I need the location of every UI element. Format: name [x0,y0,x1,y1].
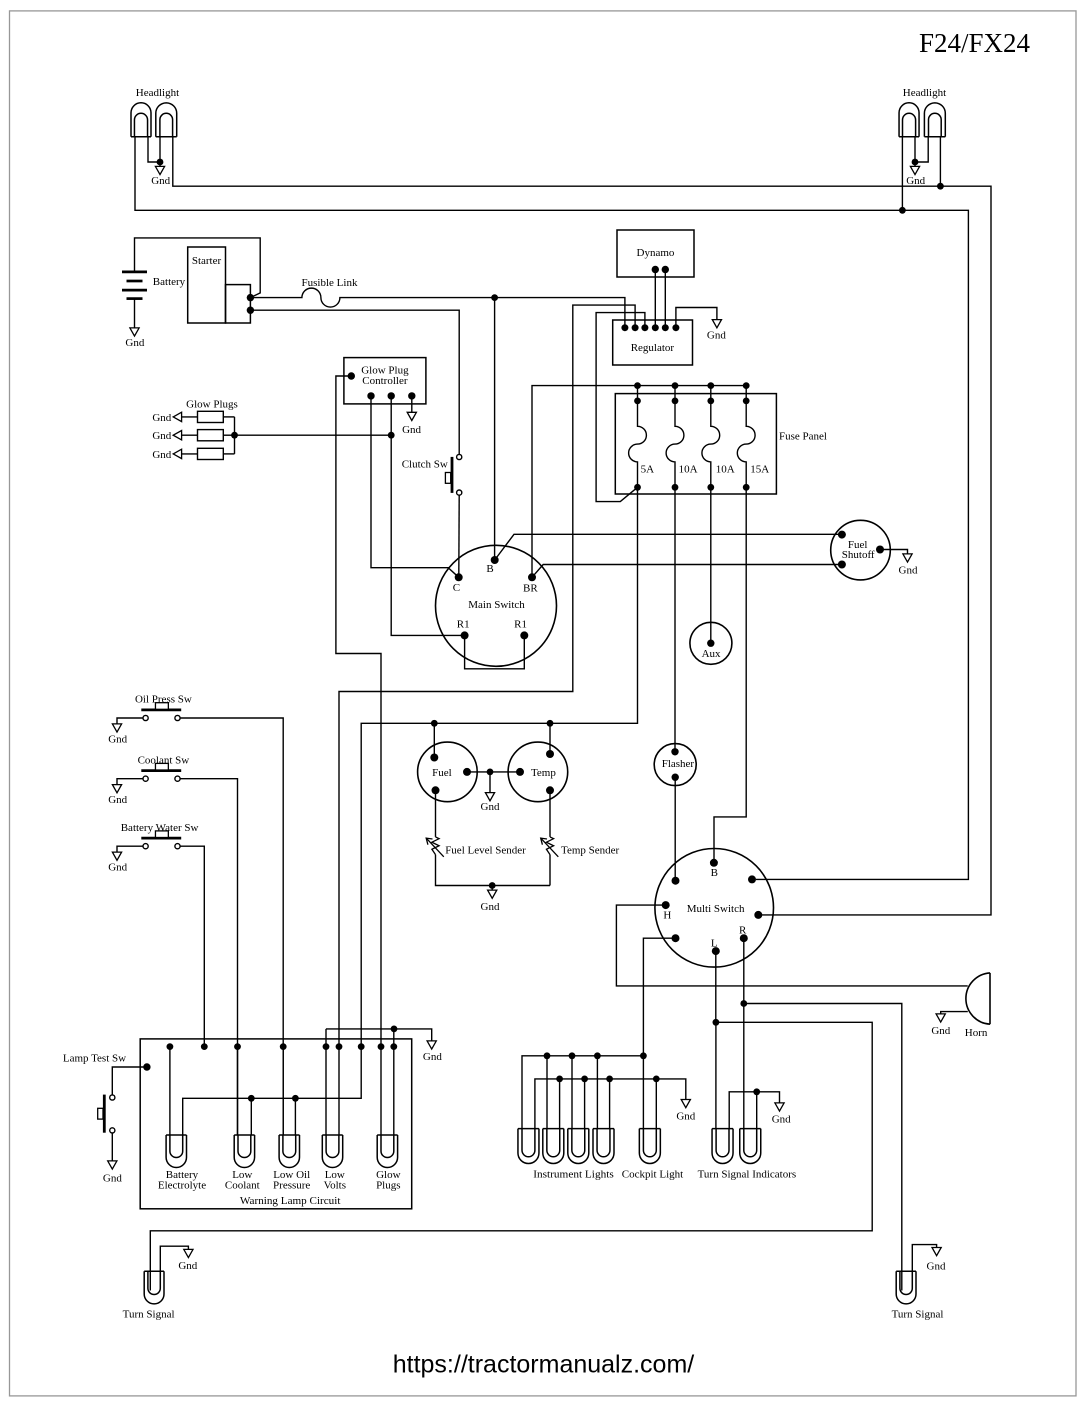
node starter terminal lower [247,307,254,314]
glow plug controller box [344,358,426,404]
node temp gauge top [546,750,554,758]
svg-text:Oil Press Sw: Oil Press Sw [135,694,192,706]
svg-text:10A: 10A [716,463,735,475]
svg-text:Plugs: Plugs [376,1179,400,1191]
node turn signal left branch [713,1019,720,1026]
wire turn indicator lamp 1 feed [715,1022,717,1128]
svg-text:Regulator: Regulator [631,342,675,354]
wire oil pressure switch to warning lamp circuit [180,718,283,1135]
node controller pin3 [408,392,415,399]
svg-text:Gnd: Gnd [108,733,127,745]
svg-text:F24/FX24: F24/FX24 [919,28,1031,58]
battery water switch body [141,837,181,840]
clutch switch contact bottom [457,490,462,495]
svg-text:Instrument Lights: Instrument Lights [533,1168,614,1180]
node fuse feed tap 2 [672,382,679,389]
lamp test contact top [110,1095,115,1100]
dynamo box [617,230,694,277]
svg-text:Gnd: Gnd [899,564,918,576]
oil pressure switch contact left [143,715,148,720]
node multi switch upper-right [748,875,756,883]
node fuse F3 top [707,398,714,405]
main switch circle [436,545,557,666]
node temp gauge left [516,768,524,776]
node sender gnd junction [489,882,496,889]
wire glow plug 3 right [223,453,234,455]
wire 10A fuse 2 to aux [710,487,712,643]
lamp test contact bottom [110,1128,115,1133]
wire R1 jumper [465,635,525,668]
wire warning gnd jog [326,1029,432,1041]
svg-text:Gnd: Gnd [152,430,171,442]
fuse panel box [615,394,776,494]
node multi switch right [754,911,762,919]
svg-text:Shutoff: Shutoff [842,549,875,561]
node aux terminal [707,640,714,647]
warning lamp circuit box [140,1039,412,1209]
flasher circle [654,744,696,786]
ground turn indicators [775,1103,784,1111]
ground right turn signal [912,1245,936,1272]
oil pressure switch body [141,709,181,712]
node warning bus tap 5 [323,1043,330,1050]
svg-text:Warning Lamp Circuit: Warning Lamp Circuit [240,1195,341,1207]
svg-text:BR: BR [523,583,538,595]
temp gauge circle [508,742,568,802]
node controller pin2 [388,392,395,399]
ground horn [941,1012,968,1014]
wire lamp test switch [112,1067,147,1095]
svg-text:Fuel: Fuel [432,767,452,779]
node fuel shutoff terminal 3 [876,546,884,554]
ground warning lamps [427,1041,436,1049]
instrument lamp 4 [593,1129,614,1164]
node main switch B [491,556,499,564]
warning lamp Glow Plugs [377,1135,397,1168]
wire instrument lamp4 gnd [609,1079,611,1129]
node headlight-R gnd junction [912,159,919,166]
ground battery water switch [117,846,143,852]
clutch switch contact top [457,454,462,459]
wire controller pin1 to main-switch C [371,396,459,577]
warning lamp Battery Electrolyte [166,1135,186,1167]
node instrument gnd 2 [556,1076,563,1083]
node turn signal right branch [740,1000,747,1007]
node gauge feed tap fuel [431,720,438,727]
svg-text:H: H [663,909,671,921]
node instrument gnd 3 [581,1076,588,1083]
node controller pin2 junction [388,432,395,439]
ground battery [134,299,136,328]
node turn indicator gnd [753,1088,760,1095]
svg-text:Gnd: Gnd [103,1172,122,1184]
node multi switch R [740,934,748,942]
wire glow plug 2 right [223,434,234,436]
wire warning gnd jog to lamp4 left [325,1029,327,1135]
wire headlight-L lamp2 inner leg [159,137,161,162]
svg-text:Horn: Horn [965,1027,988,1039]
fuel shutoff circle [831,520,891,580]
node multi switch H [662,901,670,909]
coolant switch body [141,769,181,772]
wire controller input to warning lamps [336,376,381,1135]
node warning bus tap 1 [167,1043,174,1050]
node instrument bus 2 [544,1052,551,1059]
svg-text:Gnd: Gnd [931,1025,950,1037]
node gauge feed tap temp [547,720,554,727]
node temp gauge bottom [546,786,554,794]
node warning bus tap 7 [358,1043,365,1050]
node instrument bus 3 [569,1052,576,1059]
node warning bus tap 2 [201,1043,208,1050]
svg-text:Aux: Aux [702,648,721,660]
ground gauge link [489,772,491,793]
svg-text:Main Switch: Main Switch [468,599,525,611]
battery plates [122,271,147,274]
wire cockpit lamp gnd [655,1079,657,1129]
node fuse F2 bottom [672,484,679,491]
svg-text:Starter: Starter [192,255,222,267]
starter solenoid box [226,285,251,323]
svg-text:Turn Signal: Turn Signal [123,1309,175,1321]
node multi switch L [712,947,720,955]
svg-text:https://tractormanualz.com/: https://tractormanualz.com/ [393,1351,695,1379]
svg-text:15A: 15A [750,463,769,475]
node warning gnd jog junction [391,1026,398,1033]
node main switch R1 right [520,631,528,639]
turn signal indicator lamp 1 [712,1129,733,1164]
wire B terminal up to fusible link [494,298,496,560]
ground senders [491,886,493,891]
svg-text:R: R [739,925,747,937]
node dynamo terminal 2 [662,266,669,273]
clutch switch body [451,457,454,493]
ground fuel shutoff [880,550,908,554]
wire headlight-R left leg down [901,137,903,211]
wire instrument lamp2 gnd [559,1079,561,1129]
node fuel gauge top [430,754,438,762]
wire fuel-temp gauge link [467,771,520,773]
wire glow plug 1 right [223,416,234,418]
wire 15A fuse to multi-switch B [714,487,746,863]
node headlight-L gnd junction [157,159,164,166]
wire 10A fuse to flasher [674,487,676,752]
wire clutch switch to C terminal [458,495,460,577]
ground lamp test switch [111,1133,113,1161]
wire warning lamp2 right [250,1098,252,1135]
svg-text:Cockpit Light: Cockpit Light [622,1168,683,1180]
wire headlight-R right leg down [939,137,941,187]
starter box [188,247,226,323]
svg-text:Gnd: Gnd [152,412,171,424]
node regulator pin5 [662,324,669,331]
instrument lamp 5 [639,1129,660,1164]
node warning bus tap 4 [280,1043,287,1050]
wire temp gauge feed [549,723,551,754]
wire multi-switch R to right turn signal [744,938,902,1290]
wire instrument lamp3 gnd [584,1079,586,1129]
ground controller pin3 [411,396,413,412]
wire instrument lamp3 feed [571,1056,573,1129]
wire battery water switch to warning lamp circuit [180,846,204,1046]
wire coolant switch to warning lamp circuit [180,779,237,1135]
node glow plug controller input [348,372,355,379]
lamp test switch body [103,1095,106,1133]
node fuse F4 top [743,398,750,405]
node fuse feed tap 1 [634,382,641,389]
svg-text:Gnd: Gnd [423,1051,442,1063]
node warning inner bus lamp3 [292,1095,299,1102]
wire flasher to multi-switch [674,777,676,881]
svg-text:Coolant: Coolant [225,1179,260,1191]
node regulator pin6 [672,324,679,331]
svg-text:Gnd: Gnd [676,1111,695,1123]
svg-text:Turn Signal Indicators: Turn Signal Indicators [698,1168,797,1180]
right turn signal lamp [896,1271,916,1304]
svg-text:Coolant Sw: Coolant Sw [138,754,190,766]
node multi switch B [710,859,718,867]
node fuse feed tap 3 [707,382,714,389]
svg-text:Temp: Temp [531,767,556,779]
node controller pin1 [367,392,374,399]
headlight left lamp 1 [131,103,151,137]
node warning bus tap 8 [378,1043,385,1050]
turn signal indicator lamp 2 [740,1129,761,1164]
svg-text:Fuel Level Sender: Fuel Level Sender [445,845,526,857]
svg-text:Gnd: Gnd [481,801,500,813]
coolant switch contact right [175,776,180,781]
glow plug resistor 1 [198,411,224,422]
svg-text:Pressure: Pressure [273,1179,310,1191]
svg-text:Headlight: Headlight [136,87,179,99]
fuse F4 [737,386,755,488]
svg-text:Dynamo: Dynamo [637,247,675,259]
node fuse F1 bottom [634,484,641,491]
svg-text:L: L [711,938,718,950]
fuse F2 [666,386,684,488]
svg-text:Temp Sender: Temp Sender [561,845,620,857]
wire warning lamp2 feed [237,1047,239,1135]
wire turn indicator lamp 2 feed [743,1004,745,1129]
svg-text:Gnd: Gnd [772,1113,791,1125]
wire instrument bus feed [522,1056,643,1129]
wire starter lower to clutch switch [250,310,459,454]
svg-text:5A: 5A [641,463,655,475]
warning lamp Low Volts [322,1135,342,1168]
svg-text:Controller: Controller [362,375,408,387]
wire warning lamp1 feed [169,1047,171,1135]
wire warning lamp3 right [294,1098,296,1135]
node gauge link junction [487,769,494,776]
node B-wire tap on fusible link [491,294,498,301]
fuel gauge circle [418,742,478,802]
node regulator pin1 [621,324,628,331]
node instrument gnd cockpit [653,1076,660,1083]
svg-text:Gnd: Gnd [108,794,127,806]
svg-text:Gnd: Gnd [402,424,421,436]
node fuel gauge right [463,768,471,776]
node lamp test tap [143,1063,150,1070]
headlight left lamp 2 [156,103,177,137]
node warning bus tap 3 [234,1043,241,1050]
wire turn indicator lamp2 gnd [756,1092,758,1129]
wire multi-switch LL to instrument lights [643,938,675,1128]
wire fuel gauge to sender [435,790,437,837]
horn symbol [989,973,991,1024]
node warning inner bus lamp2 [248,1095,255,1102]
wire instrument lamp2 feed [546,1056,548,1129]
wire main-switch B to fuel shutoff [495,534,842,560]
node multi switch upper-left [672,877,680,885]
wire instrument gnd bus [535,1079,686,1129]
node multi switch lower-left [672,934,680,942]
wire headlight-R lamp2 gnd jog [915,137,928,162]
wire glow plug 2 left [181,434,197,436]
svg-text:Gnd: Gnd [151,175,170,187]
svg-text:Fusible Link: Fusible Link [302,277,358,289]
wire multi-switch L to left turn signal [150,951,872,1290]
node fuse feed tap 4 [743,382,750,389]
svg-text:Gnd: Gnd [481,901,500,913]
svg-text:10A: 10A [679,463,698,475]
svg-text:C: C [453,582,460,594]
svg-text:Gnd: Gnd [152,449,171,461]
svg-text:Fuse Panel: Fuse Panel [779,431,827,443]
ground headlight-L [159,162,161,166]
battery water switch contact left [143,844,148,849]
node warning bus tap 9 [390,1043,397,1050]
svg-text:Gnd: Gnd [906,175,925,187]
svg-text:Headlight: Headlight [903,87,946,99]
coolant switch contact left [143,776,148,781]
instrument lamp 1 [518,1129,539,1164]
svg-text:Turn Signal: Turn Signal [892,1309,944,1321]
wire headlight-L feed to bus / multi-switch upper-right terminal [135,137,968,880]
wire fuel sender to gnd bus [436,855,551,886]
ground left turn signal [160,1246,188,1271]
warning lamp Low Oil Pressure [279,1135,299,1168]
wire fuel gauge feed [433,723,435,757]
ground headlight-R [914,162,916,166]
wire warning lamp5 right to gnd [393,1029,395,1135]
node headlight-R on upper bus [899,207,906,214]
multi switch circle [655,849,774,968]
wire glow plug bus [234,417,236,454]
instrument lamp 3 [568,1129,589,1164]
oil pressure switch contact right [175,715,180,720]
wire instrument lamp4 feed [596,1056,598,1129]
node flasher bottom [672,774,679,781]
svg-text:R1: R1 [457,619,470,631]
wire battery to starter top [135,238,261,298]
svg-text:Gnd: Gnd [125,337,144,349]
wire multi-switch H to horn [616,905,967,986]
node warning bus tap 6 [336,1043,343,1050]
wire regulator pin2 to warning lamp circuit [339,305,635,1135]
svg-text:B: B [486,563,493,575]
node headlight-R on lower bus [937,183,944,190]
warning lamp Low Coolant [234,1135,254,1168]
wire 5A fuse to gauges feed line and warning lamps [361,487,637,1046]
instrument lamp 2 [543,1129,564,1164]
node main switch R1 left [461,631,469,639]
wire headlight-L gnd jog [148,137,160,162]
svg-text:Multi Switch: Multi Switch [687,903,745,915]
glow plug resistor 3 [198,448,224,459]
fuel level sender [432,837,439,855]
svg-text:Clutch Sw: Clutch Sw [402,458,448,470]
node fuse F3 bottom [707,484,714,491]
svg-text:Flasher: Flasher [662,758,695,770]
node fuel shutoff terminal 1 [838,531,846,539]
node dynamo terminal 1 [652,266,659,273]
wire headlight-R inner leg to gnd [914,137,916,162]
wire warning lamp3 feed [282,1047,284,1135]
node fuel shutoff terminal 2 [838,561,846,569]
wire dynamo to regulator pin4 [654,270,656,328]
node main switch BR [528,573,536,581]
glow plug resistor 2 [198,430,224,441]
wire glow plug 1 left [181,416,197,418]
svg-text:Glow Plugs: Glow Plugs [186,399,238,411]
wire main-switch BR to fuel shutoff [532,565,842,578]
headlight right lamp 1 [899,103,919,137]
wire warning inner bus [183,1047,362,1135]
fuse F1 [629,386,647,488]
svg-text:Gnd: Gnd [927,1260,946,1272]
node regulator pin2 [632,324,639,331]
node flasher top [671,748,678,755]
svg-text:B: B [711,867,718,879]
node fuel gauge bottom [432,786,440,794]
ground glow plug 1 [173,412,181,421]
wire turn indicator gnd bus [729,1092,779,1129]
left turn signal lamp [144,1271,164,1304]
ground coolant switch [117,779,143,785]
battery water switch contact right [175,844,180,849]
node main switch C [455,573,463,581]
wire main-switch BR to fuse feed bus [532,386,746,578]
node fuse F2 top [672,398,679,405]
ground glow plug 2 [173,431,181,440]
svg-text:Battery: Battery [153,276,186,288]
wire fusible link to regulator pin1 [250,288,625,328]
headlight right lamp 2 [924,103,945,137]
node instrument bus cockpit [640,1052,647,1059]
svg-text:Volts: Volts [324,1179,346,1191]
ground regulator pin6 [676,308,717,328]
ground instrument lights [681,1100,690,1108]
svg-text:Gnd: Gnd [178,1260,197,1272]
svg-text:R1: R1 [514,619,527,631]
svg-text:Gnd: Gnd [707,329,726,341]
ground glow plug 3 [173,449,181,458]
fuse F3 [702,386,720,488]
wire temp sender down [549,855,551,886]
ground oil pressure switch [117,718,143,724]
node regulator pin4 [652,324,659,331]
regulator box [613,320,693,365]
wire glow plugs to controller pin2 [235,434,392,436]
svg-text:Electrolyte: Electrolyte [158,1179,206,1191]
temp sender [546,837,553,855]
node regulator pin3 [641,324,648,331]
node instrument gnd 4 [606,1076,613,1083]
node starter terminal upper [247,294,254,301]
node fuse F1 top [634,398,641,405]
wire headlight-L second lamp to lower bus / multi-switch right terminal [173,137,991,915]
wire temp gauge to sender [549,790,551,837]
